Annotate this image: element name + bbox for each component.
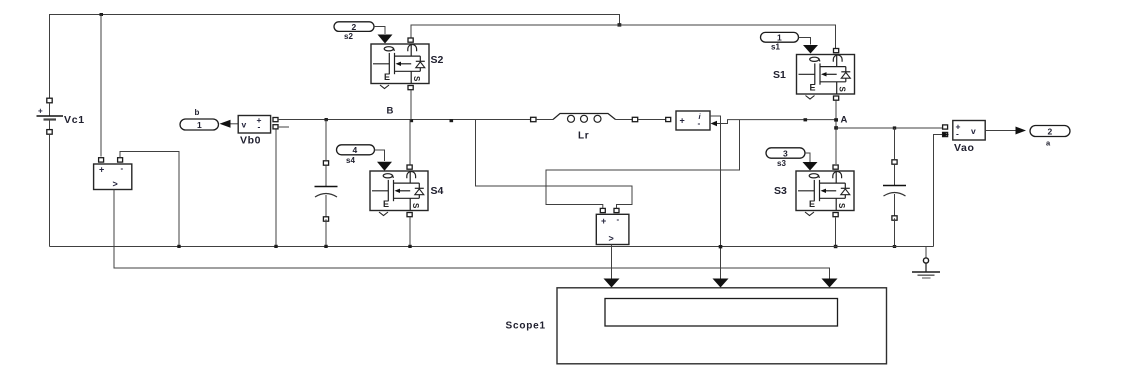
wire: node B down to S4 drain <box>409 120 411 165</box>
svg-text:-: - <box>956 129 959 139</box>
wire: Vao minus to ground bus <box>934 135 943 247</box>
svg-text:S2: S2 <box>431 54 444 66</box>
wire: S3 source down to ground bus <box>835 218 837 247</box>
junction at ammeter signal crossing <box>719 245 723 248</box>
wire: s4 gate feed <box>375 150 385 161</box>
voltmeter Vb0 <box>238 115 278 133</box>
wire: S1 source down to node A <box>835 101 837 165</box>
junction Vb0 minus <box>274 245 277 248</box>
wire: top DC+ bus from Vc1 to x=619 <box>50 15 620 102</box>
svg-text:A: A <box>841 115 848 126</box>
wire: node B bus from Vb0 plus to inductor <box>278 119 531 121</box>
ammeter I1 current measurement <box>666 111 710 130</box>
svg-text:2: 2 <box>352 22 357 32</box>
junction node A upper <box>834 118 838 121</box>
svg-text:Vao: Vao <box>954 142 974 154</box>
junction on node B bus <box>450 119 454 122</box>
wire: inductor to ammeter <box>638 119 666 121</box>
junction capacitor C2 tap <box>893 126 896 129</box>
transistor S2 <box>371 38 429 90</box>
inductor Lr <box>531 114 638 142</box>
svg-text:s3: s3 <box>777 159 786 168</box>
svg-text:3: 3 <box>783 149 788 159</box>
scope input arrowheads <box>604 279 620 288</box>
wire: measurement output down then right toward scope <box>114 190 830 284</box>
wire: Vb0 minus down to ground bus <box>275 130 277 247</box>
svg-text:s2: s2 <box>344 32 353 41</box>
junction S2/S4 branch <box>410 119 414 122</box>
wire: S2 source down to node B <box>410 90 412 120</box>
svg-text:>: > <box>609 234 614 244</box>
wire: U2 - input over to node B <box>476 120 633 209</box>
svg-text:+: + <box>99 165 104 175</box>
junction S4 source <box>408 245 411 248</box>
svg-text:Lr: Lr <box>578 131 589 142</box>
op-amp U2 voltage measurement Vab <box>596 208 629 244</box>
junction at comparator tap <box>100 13 104 16</box>
svg-text:v: v <box>971 126 976 136</box>
wire: tap down to voltage measurement + input <box>100 15 102 157</box>
wire: drain rail S2 to S1 <box>411 25 836 49</box>
port oval s1 <box>761 32 799 51</box>
junction S3 at ground bus <box>834 245 838 248</box>
junction node A lower tap to output <box>834 126 838 129</box>
transistor S4 <box>370 165 428 217</box>
junction at x=619 on drain rail <box>618 23 622 26</box>
svg-text:1: 1 <box>777 33 782 43</box>
svg-text:B: B <box>387 106 394 117</box>
svg-text:4: 4 <box>353 145 358 155</box>
port oval s4 <box>337 145 375 165</box>
capacitor C1 <box>315 161 338 221</box>
svg-text:-: - <box>121 164 124 173</box>
node b port oval <box>180 108 219 130</box>
svg-text:s4: s4 <box>346 156 355 165</box>
svg-text:-: - <box>258 122 261 132</box>
wire: measurement - input up over to ground bus <box>120 152 179 247</box>
ground symbol <box>912 247 940 279</box>
wire: U2 output down to scope <box>611 245 613 284</box>
wire: Vb0 output to port b with arrowhead <box>229 123 238 125</box>
junction C1 bottom <box>324 245 327 248</box>
svg-text:Vb0: Vb0 <box>240 135 261 147</box>
junction on node A bus <box>804 118 808 121</box>
wire: U2 + input over to node A side <box>546 120 740 209</box>
port oval s3 <box>766 148 805 168</box>
svg-text:Vc1: Vc1 <box>64 114 85 126</box>
svg-text:S4: S4 <box>431 185 444 197</box>
svg-text:-: - <box>617 215 620 224</box>
junction C2 at ground bus <box>893 245 896 248</box>
wire: Vao output to port a <box>985 130 1016 132</box>
scope Scope1 <box>506 288 887 364</box>
ground bus wire <box>50 246 934 248</box>
svg-text:2: 2 <box>1048 127 1053 137</box>
svg-text:v: v <box>242 120 247 130</box>
wire: ammeter i output down to scope <box>710 116 721 283</box>
transistor S1 <box>797 49 855 101</box>
node a port oval <box>1030 126 1070 148</box>
wire: s1 gate feed <box>799 38 811 45</box>
wire: battery minus down to ground bus <box>49 134 51 246</box>
junction capacitor C1 tap <box>325 118 328 121</box>
svg-text:s1: s1 <box>771 43 780 52</box>
op-amp U1 voltage measurement (DC bus) <box>94 158 132 190</box>
svg-text:+: + <box>38 107 43 116</box>
battery Vc1 <box>37 98 64 134</box>
wire: ammeter minus to node A <box>716 120 835 124</box>
svg-text:S1: S1 <box>773 69 786 81</box>
wire: Vb0 minus stub <box>278 126 289 128</box>
port oval s2 <box>334 22 374 41</box>
capacitor C2 <box>883 160 906 220</box>
svg-text:+: + <box>601 216 606 226</box>
svg-text:1: 1 <box>197 120 202 130</box>
svg-text:+: + <box>680 116 685 126</box>
wire: node A to output network <box>836 127 943 129</box>
transistor S3 <box>796 165 854 217</box>
svg-text:Scope1: Scope1 <box>506 321 546 332</box>
junction comparator tap <box>177 245 180 248</box>
wire: S4 source down to ground bus <box>409 217 411 247</box>
svg-text:b: b <box>195 108 200 117</box>
svg-text:-: - <box>698 118 701 128</box>
svg-text:S3: S3 <box>774 185 787 197</box>
wire: s2 gate feed <box>374 27 385 35</box>
wire: s3 gate feed <box>805 153 810 162</box>
svg-text:>: > <box>113 179 118 189</box>
voltmeter Vao <box>943 121 986 141</box>
